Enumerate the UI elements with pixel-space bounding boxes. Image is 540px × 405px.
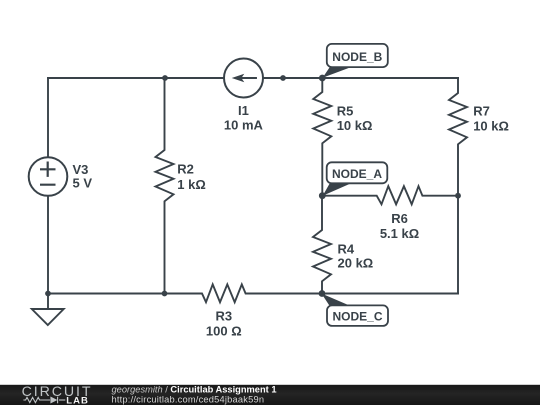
svg-text:1 kΩ: 1 kΩ	[177, 177, 206, 192]
svg-text:NODE_A: NODE_A	[332, 167, 382, 181]
svg-text:20 kΩ: 20 kΩ	[338, 255, 374, 270]
svg-text:NODE_B: NODE_B	[332, 50, 382, 64]
svg-text:10 mA: 10 mA	[224, 118, 264, 133]
svg-text:R3: R3	[215, 309, 232, 324]
svg-text:10 kΩ: 10 kΩ	[337, 118, 373, 133]
svg-text:5.1 kΩ: 5.1 kΩ	[380, 226, 419, 241]
svg-text:LAB: LAB	[66, 395, 89, 405]
svg-text:NODE_C: NODE_C	[332, 310, 382, 324]
svg-text:100 Ω: 100 Ω	[206, 324, 242, 339]
svg-text:http://circuitlab.com/ced54jba: http://circuitlab.com/ced54jbaak59n	[112, 394, 265, 404]
svg-text:georgesmith / Circuitlab Assig: georgesmith / Circuitlab Assignment 1	[112, 384, 277, 394]
svg-text:R7: R7	[473, 104, 490, 119]
svg-text:R6: R6	[391, 211, 408, 226]
svg-text:R5: R5	[337, 104, 354, 119]
svg-text:R2: R2	[177, 161, 194, 176]
svg-text:5 V: 5 V	[73, 176, 93, 191]
svg-text:I1: I1	[238, 103, 249, 118]
svg-text:10 kΩ: 10 kΩ	[473, 119, 509, 134]
